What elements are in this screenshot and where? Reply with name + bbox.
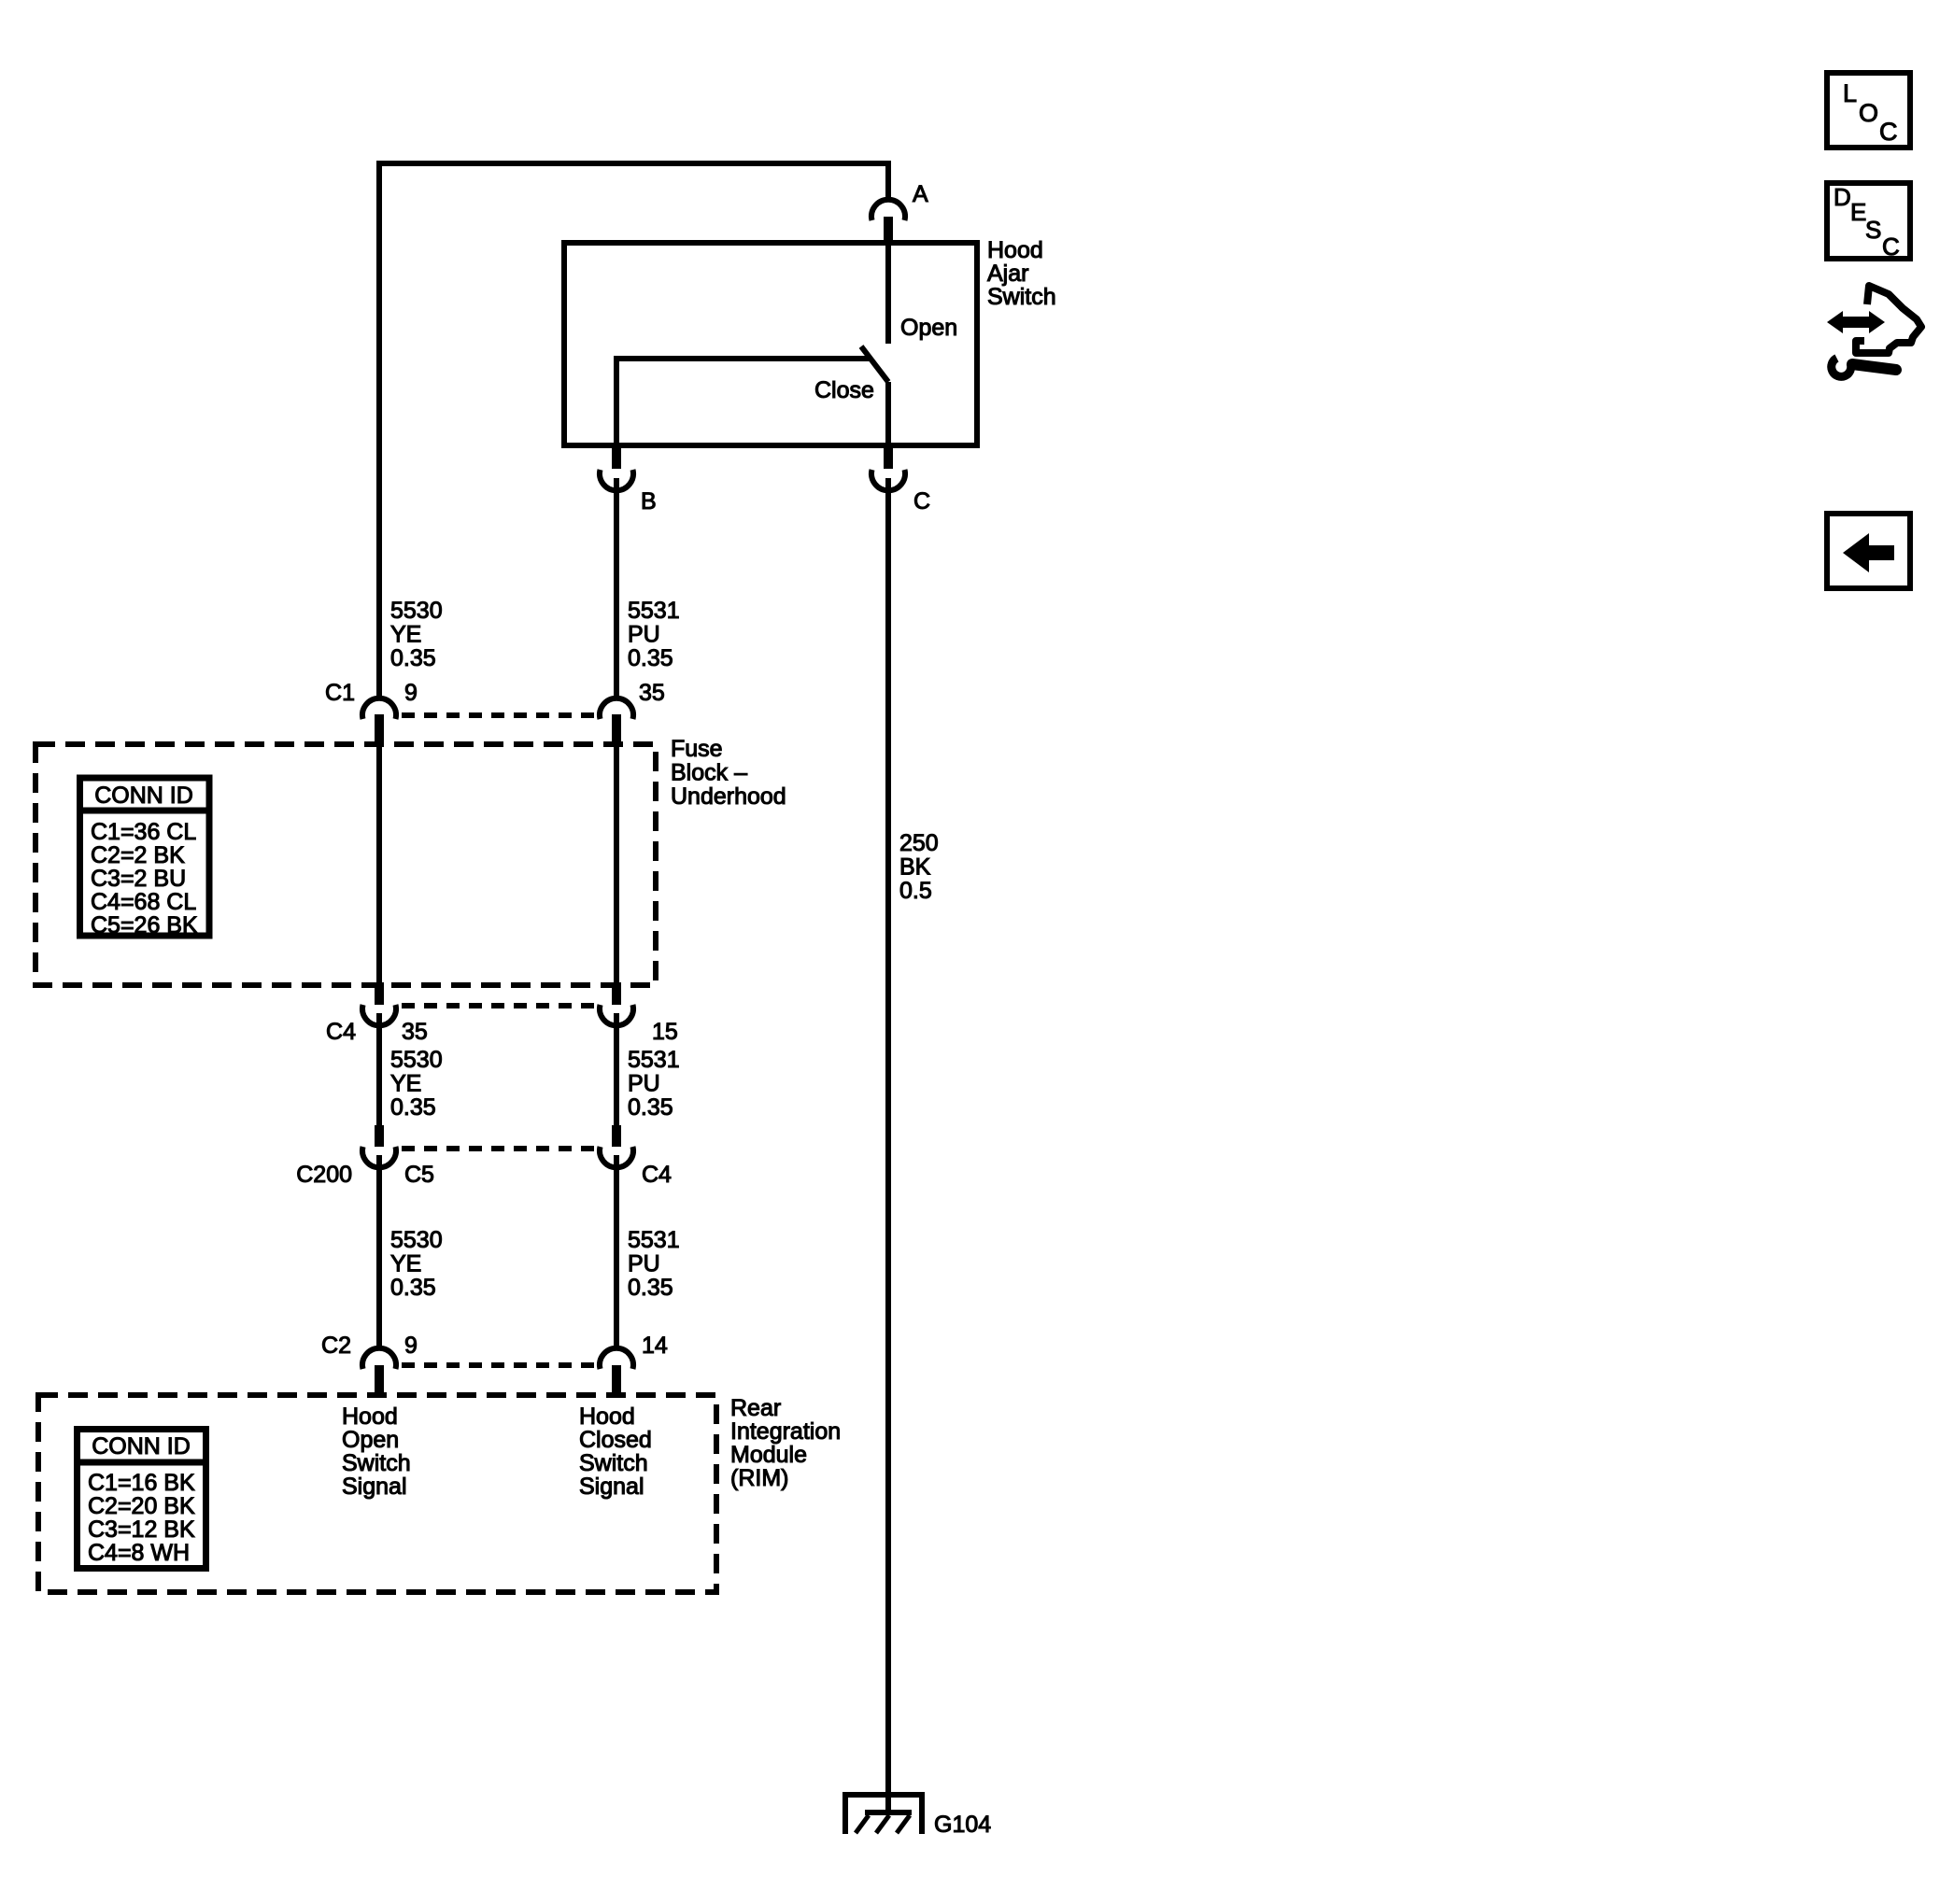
svg-text:C5: C5 [404,1162,434,1188]
svg-text:Close: Close [814,377,874,403]
dashed connector row line C2 [402,1362,595,1368]
wire: common C branch inside switch [885,382,891,445]
wire 5531 PU 0.35 (C4 to C200) [614,1013,619,1126]
fuse block underhood dashed outline [35,744,656,985]
svg-text:C: C [1882,233,1900,261]
svg-text:C: C [913,488,930,515]
svg-text:C: C [1879,118,1898,146]
connector C200 pin C5 (female half) [362,1147,396,1167]
svg-text:D: D [1834,183,1851,211]
svg-text:C1: C1 [325,680,355,706]
connector C2 pin 14 (female half) [600,1348,633,1369]
wire inside fuse block right [614,746,619,983]
wire: top feed from pin 9 to switch pin A [379,163,888,699]
connector C1 pin 9 (female half) [362,698,396,719]
svg-text:C1=36 CLC2=2 BKC3=2 BUC4=68 CL: C1=36 CLC2=2 BKC3=2 BUC4=68 CLC5=26 BK [91,819,198,938]
wire 250 BK 0.5 (C to ground G104) [885,478,891,1812]
svg-text:L: L [1843,79,1857,107]
svg-text:A: A [913,181,928,207]
svg-text:G104: G104 [934,1812,991,1838]
connector C200 pin C4 (female half) [600,1147,633,1167]
connector C200 pin C5 stub [375,1125,384,1147]
CONN ID table (RIM) [78,1430,206,1569]
dashed connector row line C4 [402,1003,595,1008]
wire inside fuse block left [376,746,382,983]
svg-text:E: E [1850,198,1866,226]
rear integration module dashed outline [38,1395,716,1592]
svg-text:C1=16 BKC2=20 BKC3=12 BKC4=8 W: C1=16 BKC2=20 BKC3=12 BKC4=8 WH [88,1470,195,1566]
connector C1 pin 35 stub [612,714,621,746]
svg-text:C4: C4 [326,1019,356,1045]
back arrow icon [1843,533,1894,572]
svg-text:S: S [1865,216,1881,244]
wire 5530 YE 0.35 (B to fuse block pin 9) [614,478,619,699]
schematic navigation icon: double arrow [1827,311,1885,333]
connector C2 pin 9 stub [375,1365,384,1397]
svg-text:C2: C2 [321,1333,351,1359]
LOC icon box [1827,73,1910,148]
wire 5530 YE 0.35 (C4 to C200) [376,1013,382,1126]
connector C200 pin C4 stub [612,1125,621,1147]
svg-text:CONN ID: CONN ID [92,1433,191,1460]
connector C pin stub [884,445,893,469]
ground G104 hatch 2 [876,1815,889,1833]
switch blade [861,346,888,382]
svg-text:B: B [641,488,657,515]
dashed connector row line C200 [402,1146,595,1151]
wire 5530 YE 0.35 (C200 to RIM pin 9) [376,1155,382,1348]
ground G104 hatch 3 [897,1815,910,1833]
svg-text:C200: C200 [296,1162,352,1188]
svg-text:CONN ID: CONN ID [94,783,193,809]
connector C2 pin 9 (female half) [362,1348,396,1369]
ground G104 bar [865,1810,912,1815]
svg-text:15: 15 [652,1019,678,1045]
svg-text:9: 9 [404,1333,418,1359]
connector A (female half) [871,200,905,220]
connector C1 pin 9 stub [375,714,384,746]
svg-text:35: 35 [639,680,665,706]
DESC icon box [1827,183,1910,259]
back arrow icon box [1827,514,1910,588]
connector A pin stub [884,217,893,245]
ground G104 bracket [845,1795,922,1834]
connector B pin stub [612,445,621,469]
CONN ID table (fuse block) [80,778,210,936]
connector C (female half) [871,470,905,490]
ground G104 hatch 1 [856,1815,869,1833]
connector C4 pin 15 stub [612,982,621,1005]
svg-text:O: O [1859,99,1878,127]
connector C4 pin 35 (female half) [362,1005,396,1025]
svg-text:Open: Open [900,315,957,341]
connector C4 pin 35 stub [375,982,384,1005]
schematic navigation icon: wrench [1832,359,1896,377]
svg-text:9: 9 [404,680,418,706]
svg-text:C4: C4 [642,1162,672,1188]
schematic navigation icon: outline [1856,286,1921,353]
wire: Close contact branch [616,359,871,445]
connector B (female half) [600,470,633,490]
connector C1 pin 35 (female half) [600,698,633,719]
dashed connector row line C1 [402,712,595,718]
connector C2 pin 14 stub [612,1365,621,1397]
wire 5531 PU 0.35 (C200 to RIM pin 14) [614,1155,619,1348]
connector C4 pin 15 (female half) [600,1005,633,1025]
hood ajar switch box [564,243,977,445]
svg-text:35: 35 [402,1019,428,1045]
svg-text:14: 14 [642,1333,668,1359]
wire: Open contact branch [885,246,891,344]
